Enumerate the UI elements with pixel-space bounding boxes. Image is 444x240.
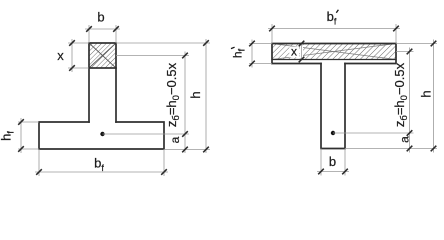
svg-text:a: a xyxy=(397,136,411,143)
svg-text:h: h xyxy=(188,91,203,98)
svg-text:h: h xyxy=(419,90,434,97)
svg-text:b: b xyxy=(329,154,336,169)
svg-text:b: b xyxy=(97,10,104,25)
svg-text:a: a xyxy=(168,136,182,143)
svg-text:x: x xyxy=(291,45,297,59)
svg-text:x: x xyxy=(57,48,64,63)
